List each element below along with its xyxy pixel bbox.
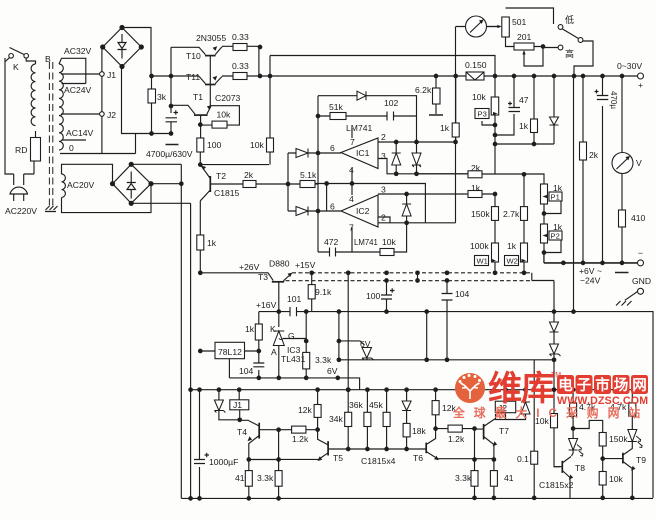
svg-text:T6: T6 xyxy=(413,453,423,463)
svg-text:T5: T5 xyxy=(333,453,343,463)
svg-text:1k: 1k xyxy=(553,222,563,232)
svg-text:T2: T2 xyxy=(216,171,226,181)
svg-text:12k: 12k xyxy=(298,405,313,415)
svg-text:4: 4 xyxy=(349,194,354,204)
svg-text:47: 47 xyxy=(519,95,529,105)
svg-text:1k: 1k xyxy=(519,121,529,131)
svg-text:低: 低 xyxy=(565,14,574,25)
svg-text:102: 102 xyxy=(384,98,399,108)
svg-text:4: 4 xyxy=(349,165,354,175)
svg-text:AC220V: AC220V xyxy=(5,206,37,216)
svg-text:2: 2 xyxy=(381,213,386,223)
svg-text:C2073: C2073 xyxy=(215,93,241,103)
svg-text:41: 41 xyxy=(504,473,514,483)
svg-text:J1: J1 xyxy=(233,400,242,410)
svg-text:AC20V: AC20V xyxy=(67,180,94,190)
svg-text:全球最大IC采购网站: 全球最大IC采购网站 xyxy=(452,406,649,420)
svg-text:W2: W2 xyxy=(507,257,518,266)
svg-text:2.7k: 2.7k xyxy=(503,209,520,219)
svg-text:201: 201 xyxy=(517,32,532,42)
svg-text:100: 100 xyxy=(366,291,381,301)
svg-text:T11: T11 xyxy=(186,72,200,82)
svg-text:−24V: −24V xyxy=(580,276,601,286)
svg-text:1.2k: 1.2k xyxy=(448,434,465,444)
svg-text:P1: P1 xyxy=(551,193,560,202)
svg-text:104: 104 xyxy=(239,366,254,376)
svg-text:0.1: 0.1 xyxy=(517,454,529,464)
svg-text:V: V xyxy=(636,158,642,168)
svg-text:6.2k: 6.2k xyxy=(415,85,432,95)
svg-text:AC14V: AC14V xyxy=(66,128,93,138)
svg-text:101: 101 xyxy=(287,294,302,304)
svg-text:5.1k: 5.1k xyxy=(300,170,317,180)
svg-text:GND: GND xyxy=(632,276,651,286)
svg-text:3.3k: 3.3k xyxy=(257,473,274,483)
svg-text:T1: T1 xyxy=(193,92,203,102)
svg-text:104: 104 xyxy=(455,289,470,299)
svg-text:+6V ~: +6V ~ xyxy=(579,266,602,276)
svg-text:470µ: 470µ xyxy=(609,91,618,109)
svg-text:2: 2 xyxy=(381,132,386,142)
svg-text:LM741: LM741 xyxy=(346,123,372,133)
svg-text:150k: 150k xyxy=(609,434,628,444)
svg-text:3: 3 xyxy=(381,151,386,161)
svg-text:10k: 10k xyxy=(609,474,624,484)
svg-text:TL431: TL431 xyxy=(281,354,306,364)
svg-text:J2: J2 xyxy=(107,110,116,120)
svg-text:41: 41 xyxy=(235,473,245,483)
svg-text:2k: 2k xyxy=(244,170,254,180)
svg-text:6V: 6V xyxy=(327,366,338,376)
svg-text:T7: T7 xyxy=(499,426,509,436)
svg-text:1k: 1k xyxy=(245,324,255,334)
svg-text:0~30V: 0~30V xyxy=(617,61,642,71)
svg-text:1k: 1k xyxy=(440,123,450,133)
svg-text:C1815x2: C1815x2 xyxy=(539,480,574,490)
svg-text:T4: T4 xyxy=(237,427,247,437)
svg-text:1k: 1k xyxy=(507,241,517,251)
svg-text:6: 6 xyxy=(330,143,335,153)
svg-text:78L12: 78L12 xyxy=(218,347,242,357)
svg-text:100: 100 xyxy=(207,140,222,150)
svg-text:IC1: IC1 xyxy=(356,148,370,158)
svg-text:K: K xyxy=(270,324,276,334)
svg-text:4700µ/630V: 4700µ/630V xyxy=(146,149,193,159)
svg-text:T3: T3 xyxy=(258,272,268,282)
svg-text:C1815: C1815 xyxy=(214,188,240,198)
svg-text:2k: 2k xyxy=(471,163,481,173)
svg-text:10k: 10k xyxy=(382,237,397,247)
svg-text:0.33: 0.33 xyxy=(232,32,249,42)
svg-text:P2: P2 xyxy=(551,232,560,241)
svg-text:100k: 100k xyxy=(470,241,489,251)
svg-text:51k: 51k xyxy=(329,102,344,112)
svg-text:2k: 2k xyxy=(589,150,599,160)
svg-text:6: 6 xyxy=(330,202,335,212)
svg-text:AC32V: AC32V xyxy=(64,46,91,56)
svg-text:G: G xyxy=(288,331,295,341)
svg-text:B: B xyxy=(45,54,51,64)
svg-text:1k: 1k xyxy=(553,183,563,193)
svg-text:150k: 150k xyxy=(471,209,490,219)
svg-text:J1: J1 xyxy=(107,70,116,80)
svg-text:AC24V: AC24V xyxy=(64,85,91,95)
svg-text:0: 0 xyxy=(69,143,74,153)
svg-text:3: 3 xyxy=(381,185,386,195)
svg-text:3.3k: 3.3k xyxy=(455,473,472,483)
svg-text:K: K xyxy=(13,62,19,72)
svg-text:IC2: IC2 xyxy=(356,206,370,216)
svg-text:W1: W1 xyxy=(477,257,488,266)
svg-text:P3: P3 xyxy=(478,110,487,119)
svg-text:子: 子 xyxy=(577,377,592,394)
svg-text:C1815x4: C1815x4 xyxy=(361,456,396,466)
svg-text:网: 网 xyxy=(632,377,647,394)
svg-text:−: − xyxy=(638,248,643,258)
svg-text:T9: T9 xyxy=(636,455,646,465)
svg-text:1.2k: 1.2k xyxy=(292,434,309,444)
svg-text:LM741: LM741 xyxy=(354,238,378,247)
svg-text:1k: 1k xyxy=(207,238,217,248)
svg-text:3k: 3k xyxy=(157,92,167,102)
svg-text:10k: 10k xyxy=(250,140,265,150)
svg-text:1000µF: 1000µF xyxy=(209,457,238,467)
svg-text:A: A xyxy=(271,347,277,357)
svg-text:10k: 10k xyxy=(217,110,232,120)
svg-text:+26V: +26V xyxy=(239,262,260,272)
svg-text:T10: T10 xyxy=(186,51,201,61)
svg-text:D880: D880 xyxy=(269,259,290,269)
svg-text:电: 电 xyxy=(558,376,573,394)
svg-text:+16V: +16V xyxy=(256,300,277,310)
svg-text:场: 场 xyxy=(614,377,629,394)
svg-text:+15V: +15V xyxy=(295,260,316,270)
svg-text:维库: 维库 xyxy=(488,370,554,408)
svg-text:6V: 6V xyxy=(360,339,371,349)
svg-text:2N3055: 2N3055 xyxy=(196,33,226,43)
svg-text:7: 7 xyxy=(349,223,354,233)
svg-text:T8: T8 xyxy=(575,463,585,473)
svg-text:410: 410 xyxy=(631,213,646,223)
svg-text:501: 501 xyxy=(512,17,527,27)
svg-text:7: 7 xyxy=(350,137,355,147)
svg-text:36k: 36k xyxy=(349,400,364,410)
svg-text:45k: 45k xyxy=(369,400,384,410)
svg-text:9.1k: 9.1k xyxy=(315,287,332,297)
svg-text:RD: RD xyxy=(15,145,27,155)
svg-text:10k: 10k xyxy=(472,92,487,102)
svg-text:3.3k: 3.3k xyxy=(315,355,332,365)
svg-text:472: 472 xyxy=(324,237,339,247)
svg-text:0.33: 0.33 xyxy=(232,61,249,71)
svg-text:+: + xyxy=(638,80,643,90)
svg-text:0.150: 0.150 xyxy=(465,60,487,70)
svg-text:高: 高 xyxy=(565,48,574,59)
svg-text:18k: 18k xyxy=(412,426,427,436)
svg-text:1k: 1k xyxy=(471,183,481,193)
svg-text:市: 市 xyxy=(595,376,610,394)
svg-text:34k: 34k xyxy=(329,414,344,424)
